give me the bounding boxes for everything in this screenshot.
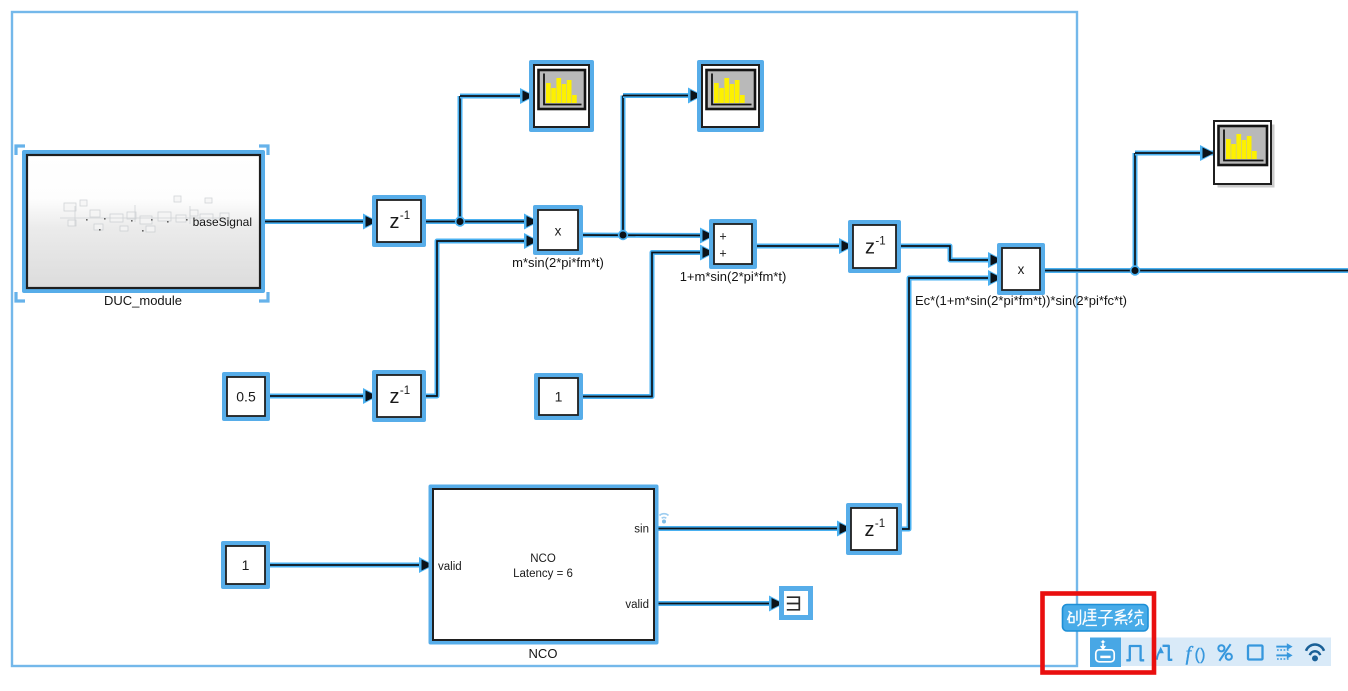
wire into scope2 [623, 93, 702, 98]
svg-text:valid: valid [625, 599, 649, 611]
wire into scope1 [460, 94, 534, 99]
wire junction [455, 216, 465, 226]
wire NCO sin -> z4 [654, 526, 851, 531]
toolbar icon signal routing (dashed arrows) [1276, 647, 1290, 659]
toolbar icon box [1248, 646, 1263, 660]
sum block (1+m*sin) [709, 219, 757, 269]
unit-delay block z2 (z^-1) [372, 370, 426, 422]
subsystem DUC_module [22, 150, 265, 293]
constant 1 (bottom) [221, 541, 270, 589]
svg-text:NCO: NCO [529, 646, 558, 661]
constant 0.5 [222, 372, 270, 421]
svg-text:z: z [865, 237, 875, 259]
svg-text:1: 1 [242, 557, 250, 573]
svg-text:1: 1 [555, 389, 563, 405]
unit-delay block z4 (z^-1) [846, 503, 902, 555]
selection rubber-band rectangle [12, 12, 1077, 666]
svg-text:valid: valid [438, 561, 462, 573]
svg-text:m*sin(2*pi*fm*t): m*sin(2*pi*fm*t) [512, 255, 604, 270]
svg-text:DUC_module: DUC_module [104, 293, 182, 308]
svg-text:x: x [555, 224, 562, 239]
wireless logging badge at NCO sin port [660, 514, 669, 519]
svg-text:baseSignal: baseSignal [193, 215, 252, 229]
wire z4 -> product2 in2 [897, 278, 1002, 529]
svg-text:-1: -1 [875, 518, 885, 530]
svg-text:sin: sin [634, 524, 649, 536]
svg-text:1+m*sin(2*pi*fm*t): 1+m*sin(2*pi*fm*t) [680, 269, 787, 284]
svg-text:0.5: 0.5 [236, 389, 256, 405]
svg-text:z: z [390, 211, 400, 233]
wire z2 -> product1 in2 [421, 241, 538, 396]
wire product2 output to edge [1040, 268, 1348, 273]
product block x1 (m*sin) [533, 205, 583, 255]
wire 0.5 -> z2 [265, 394, 377, 399]
wire junction [618, 230, 628, 240]
wire branch up to scope1 [458, 96, 463, 222]
terminator block [782, 589, 811, 618]
wire const1 -> sum in2 [578, 253, 714, 397]
wire into scope3 [1135, 151, 1214, 156]
wire branch up to scope3 [1133, 153, 1138, 271]
tooltip 创建子系统 [1063, 605, 1149, 632]
wire DUC_module baseSignal -> z1 [260, 219, 377, 224]
unit-delay block z3 (z^-1) [848, 220, 901, 273]
wire sum -> z3 [752, 244, 853, 249]
toolbar icon wifi [1306, 645, 1324, 656]
wire junction [1130, 265, 1140, 275]
svg-text:-1: -1 [875, 236, 885, 248]
svg-text:-1: -1 [400, 385, 410, 397]
svg-text:-1: -1 [400, 210, 410, 222]
spectrum scope 2 [697, 60, 764, 132]
toolbar strip background [1090, 638, 1331, 667]
toolbar icon % [1218, 644, 1232, 661]
toolbar icon pulse [1126, 646, 1144, 660]
svg-text:NCO: NCO [530, 553, 556, 565]
wire const1b -> NCO valid in [265, 563, 433, 568]
wire NCO valid -> terminator [654, 601, 783, 606]
toolbar icon step-up with arrow [1157, 651, 1160, 660]
red annotation rectangle [1043, 594, 1155, 673]
svg-text:x: x [1018, 262, 1025, 277]
svg-text:+: + [719, 247, 726, 261]
svg-text:z: z [865, 519, 875, 541]
toolbar button create-subsystem (selected) [1090, 638, 1121, 668]
product block x2 (Ec*...) [997, 243, 1045, 295]
svg-text:+: + [719, 230, 726, 244]
spectrum scope 1 [529, 60, 594, 132]
svg-text:z: z [390, 386, 400, 408]
unit-delay block z1 (z^-1) [372, 195, 426, 247]
svg-text:): ) [1200, 646, 1205, 663]
wire z3 -> product2 in1 [896, 246, 1002, 260]
constant 1 (mid) [534, 373, 583, 420]
svg-text:Latency = 6: Latency = 6 [513, 568, 573, 580]
wire branch up to scope2 [621, 96, 626, 236]
selection corner brackets around DUC_module [16, 146, 268, 301]
svg-text:Ec*(1+m*sin(2*pi*fm*t))*sin(2*: Ec*(1+m*sin(2*pi*fm*t))*sin(2*pi*fc*t) [915, 293, 1127, 308]
wire product1 -> sum in1 [578, 233, 714, 239]
subsystem NCO [429, 485, 659, 645]
spectrum scope 3 (unselected) [1218, 125, 1275, 188]
wire z1 -> product1 in1 [421, 219, 538, 224]
